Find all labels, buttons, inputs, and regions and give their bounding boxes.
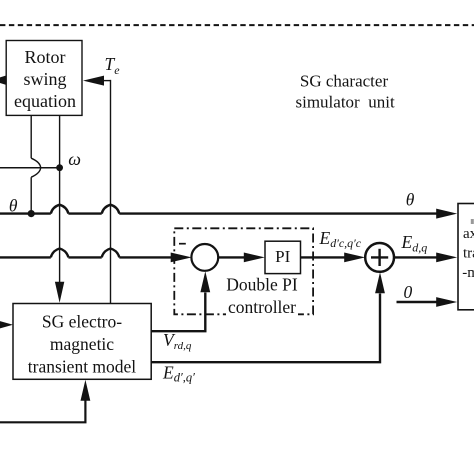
- svg-text:Rotor: Rotor: [24, 47, 65, 67]
- svg-text:equation: equation: [14, 91, 76, 111]
- svg-text:θ: θ: [9, 196, 18, 216]
- svg-text:PI: PI: [275, 247, 290, 266]
- svg-text:0: 0: [404, 282, 413, 302]
- svg-text:axi: axi: [463, 226, 474, 242]
- svg-text:ω: ω: [68, 149, 81, 169]
- svg-text:transient model: transient model: [28, 357, 137, 377]
- svg-text:simulator unit: simulator unit: [296, 92, 395, 111]
- svg-text:-ma: -ma: [462, 265, 474, 281]
- svg-text:swing: swing: [23, 69, 66, 89]
- svg-text:tra: tra: [463, 246, 474, 262]
- svg-text:SG electro-: SG electro-: [42, 312, 122, 332]
- svg-text:θ: θ: [406, 190, 415, 210]
- svg-text:controller: controller: [228, 297, 296, 317]
- svg-text:SG character: SG character: [300, 71, 389, 90]
- svg-text:Double PI: Double PI: [226, 275, 298, 295]
- svg-text:magnetic: magnetic: [50, 334, 114, 354]
